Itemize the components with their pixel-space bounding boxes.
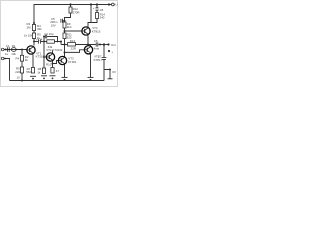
svg-text:R4: R4 <box>16 57 20 61</box>
wire C5 stub <box>62 20 64 22</box>
transistor VT4 <box>82 27 90 35</box>
rail dots <box>21 80 23 82</box>
ground bar VT1e <box>30 75 36 77</box>
svg-text:2k4: 2k4 <box>67 25 72 29</box>
svg-text:C7: C7 <box>98 54 102 58</box>
svg-text:560: 560 <box>26 70 31 74</box>
svg-text:1u: 1u <box>5 52 9 56</box>
wire VT2 collector stub <box>52 50 54 53</box>
wire VT3 collector <box>64 52 66 56</box>
ground bar nodeX <box>41 75 47 77</box>
capacitor C1 <box>7 47 9 52</box>
resistor R14 <box>96 13 99 19</box>
wire R2 column <box>21 50 23 81</box>
svg-text:KT3102: KT3102 <box>36 55 47 59</box>
svg-text:R13: R13 <box>70 39 76 43</box>
svg-text:C2 10p: C2 10p <box>44 32 54 36</box>
svg-text:KT361: KT361 <box>68 60 77 64</box>
resistor R3 <box>32 25 35 31</box>
wire VT4 emitter <box>87 35 89 44</box>
wire VT4 base <box>65 30 82 32</box>
svg-text:KT815: KT815 <box>92 30 101 34</box>
svg-text:0V: 0V <box>112 70 116 74</box>
wire C7 column <box>103 45 105 58</box>
ground bar VT3e <box>62 76 68 78</box>
input terminal lower <box>1 57 4 60</box>
capacitor C8 <box>95 7 98 9</box>
column B wire <box>64 21 66 57</box>
wire VT2 base tap <box>44 56 46 58</box>
svg-text:KT817: KT817 <box>94 58 103 62</box>
+U terminal <box>111 3 114 6</box>
input terminal upper <box>1 48 4 51</box>
svg-text:Out: Out <box>111 43 116 47</box>
transistor VT1 <box>27 46 35 54</box>
svg-text:R10: R10 <box>46 63 52 67</box>
transistor VT2 <box>46 53 54 61</box>
wire VT4 collector <box>88 19 97 27</box>
ground bar VT5e <box>88 76 94 78</box>
svg-text:+ C4: + C4 <box>36 38 43 42</box>
wire R6 right <box>54 42 61 45</box>
resistor R6 <box>47 40 55 43</box>
svg-text:47: 47 <box>56 69 60 73</box>
node X column wire <box>43 37 45 69</box>
capacitor C7 <box>102 57 107 59</box>
svg-text:C6: C6 <box>94 39 98 43</box>
svg-text:2M: 2M <box>27 26 32 30</box>
resistor R13 <box>68 43 76 46</box>
wire VT3 emitter <box>64 65 66 77</box>
svg-text:4mk: 4mk <box>94 46 100 50</box>
svg-text:220: 220 <box>15 70 20 74</box>
resistor R4 <box>32 33 35 39</box>
resistor R8 <box>42 68 45 74</box>
svg-text:10k: 10k <box>11 52 16 56</box>
resistor R2 <box>20 55 23 61</box>
svg-text:+: + <box>111 50 113 54</box>
svg-text:C8: C8 <box>100 8 104 12</box>
svg-text:33k: 33k <box>37 27 42 31</box>
svg-text:R1: R1 <box>12 44 16 48</box>
main mid wire y44.5 <box>61 44 96 46</box>
resistor R12 <box>69 7 72 13</box>
svg-text:C1: C1 <box>6 44 10 48</box>
input ground wire <box>4 59 10 81</box>
wire VT2 emitter jog <box>52 61 54 67</box>
resistor R7 <box>31 68 34 74</box>
top rail wire <box>34 5 112 46</box>
wire R12 jog <box>70 5 72 8</box>
svg-text:VT2 KT3102: VT2 KT3102 <box>46 48 63 52</box>
capacitor C5 <box>60 19 62 23</box>
resistor R1 oval <box>11 48 16 52</box>
wire C2 branch <box>43 36 46 38</box>
svg-text:3k: 3k <box>25 58 29 62</box>
transistor VT3 <box>58 56 66 64</box>
wire VT5 base <box>65 50 85 53</box>
wire C4 branch <box>34 41 38 43</box>
wire VT1 emitter <box>32 54 34 67</box>
wire VT5 collector <box>90 45 92 46</box>
wire VT5 emitter <box>90 54 92 77</box>
capacitor C4 <box>37 39 39 43</box>
transistor VT5 <box>84 46 92 54</box>
bottom rail wire <box>10 80 105 82</box>
svg-text:270R: 270R <box>73 10 80 14</box>
wire 0V terminal <box>104 70 110 79</box>
ground bar VT2e <box>50 75 56 77</box>
resistor R10 <box>51 68 54 74</box>
svg-text:+U: +U <box>114 3 118 7</box>
svg-text:1k 10k: 1k 10k <box>24 33 33 37</box>
resistor R11 <box>63 33 66 39</box>
resistor R9 <box>63 22 66 28</box>
wire rail drop x91 <box>90 5 92 23</box>
wire C8 R14 column <box>96 5 98 8</box>
svg-text:240: 240 <box>100 16 105 20</box>
svg-text:+: + <box>93 6 95 10</box>
ground bar 0V <box>108 78 113 80</box>
capacitor C6 <box>95 42 97 46</box>
svg-text:10V: 10V <box>51 24 56 28</box>
svg-text:22R: 22R <box>71 47 76 51</box>
input wire <box>4 49 27 51</box>
resistor R5 <box>20 67 23 73</box>
junction dots <box>5 49 7 51</box>
capacitor C2 <box>44 35 46 39</box>
svg-text:10: 10 <box>17 75 21 79</box>
border frame <box>1 1 118 87</box>
